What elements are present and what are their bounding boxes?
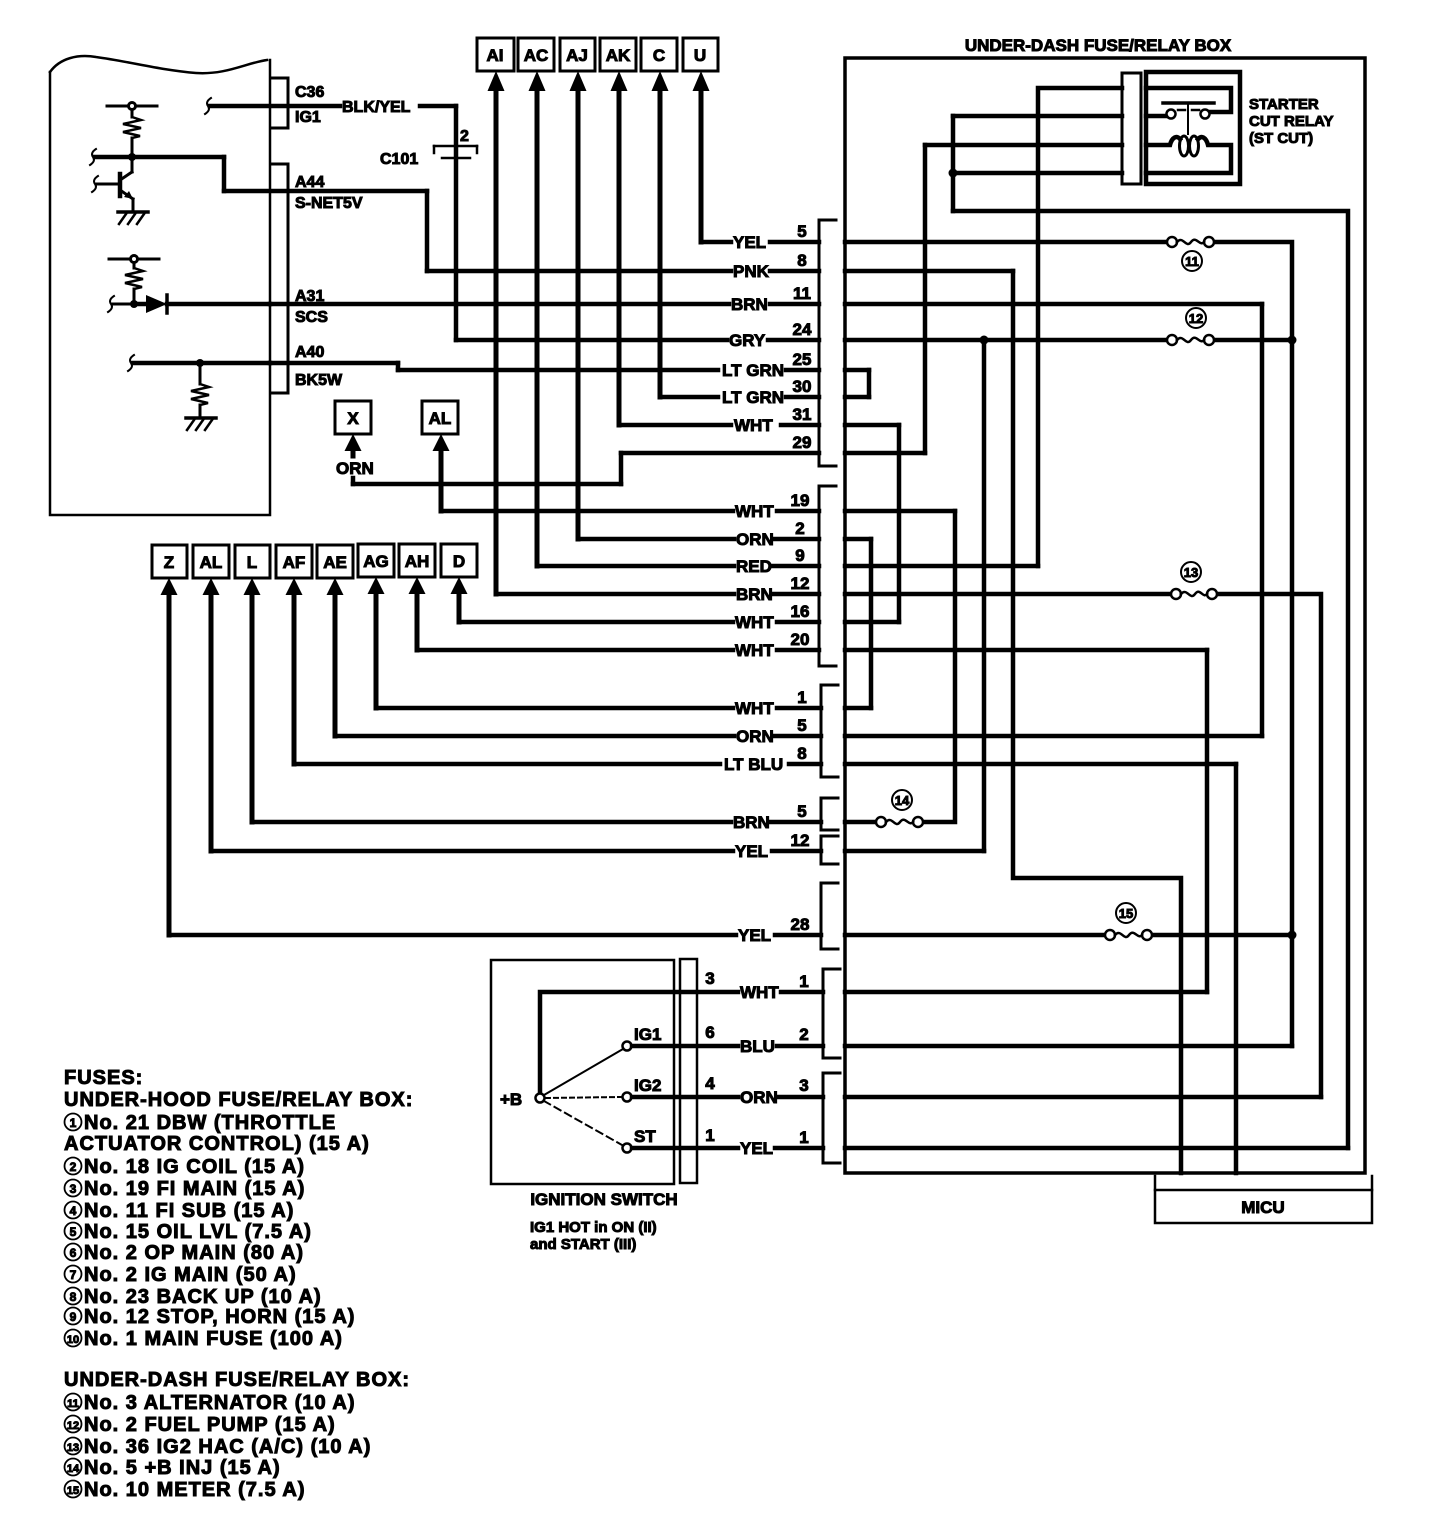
IG1 contact [623, 1042, 632, 1051]
junction fuse15 out [1288, 931, 1297, 940]
wire WHT g6 pin1 [781, 990, 1207, 995]
fuse 14 [876, 817, 923, 827]
group1 bracket [819, 220, 836, 466]
group7 bracket [823, 1073, 840, 1163]
svg-text:7: 7 [70, 1268, 77, 1282]
svg-text:3: 3 [705, 969, 714, 988]
connector AE [317, 545, 353, 736]
svg-text:No. 3 ALTERNATOR (10 A): No. 3 ALTERNATOR (10 A) [84, 1392, 356, 1414]
svg-text:8: 8 [70, 1290, 77, 1304]
relay contact circles [1167, 110, 1176, 119]
svg-text:BRN: BRN [733, 813, 770, 832]
svg-text:16: 16 [791, 602, 810, 621]
svg-text:No. 10 METER (7.5 A): No. 10 METER (7.5 A) [84, 1479, 306, 1501]
vertical wire GRY24 to YEL12 [982, 340, 987, 851]
fuse 12 [1167, 335, 1214, 345]
svg-text:No. 5 +B INJ (15 A): No. 5 +B INJ (15 A) [84, 1457, 281, 1479]
svg-text:2: 2 [70, 1160, 77, 1174]
svg-text:IG1: IG1 [634, 1025, 661, 1044]
svg-text:AL: AL [200, 553, 223, 572]
svg-text:No. 12 STOP, HORN (15 A): No. 12 STOP, HORN (15 A) [84, 1306, 355, 1328]
svg-text:CUT RELAY: CUT RELAY [1249, 113, 1333, 130]
wire WHT pin20 [417, 648, 1207, 653]
svg-text:C: C [653, 46, 665, 65]
group3 bracket [821, 685, 838, 777]
svg-text:WHT: WHT [735, 613, 774, 632]
svg-text:A44: A44 [295, 174, 324, 191]
svg-text:LT GRN: LT GRN [722, 361, 784, 380]
dashed wiper to IG2 [546, 1097, 621, 1098]
wire WHT pin31 [619, 423, 899, 428]
svg-text:WHT: WHT [735, 641, 774, 660]
svg-text:AJ: AJ [566, 46, 588, 65]
continuation tick [205, 98, 211, 114]
wire IG1 out [632, 1044, 738, 1049]
connector AL [193, 545, 229, 851]
IG2 contact [623, 1093, 632, 1102]
wire ORN from X to pin 29 [353, 453, 621, 484]
svg-text:11: 11 [793, 284, 811, 303]
svg-text:14: 14 [67, 1463, 80, 1475]
svg-text:and START (III): and START (III) [530, 1236, 636, 1253]
svg-text:31: 31 [793, 405, 812, 424]
svg-text:UNDER-HOOD FUSE/RELAY BOX:: UNDER-HOOD FUSE/RELAY BOX: [64, 1089, 413, 1111]
terminal T2 [109, 258, 159, 261]
connector AG [358, 544, 394, 708]
svg-text:IGNITION SWITCH: IGNITION SWITCH [530, 1190, 677, 1209]
svg-text:8: 8 [797, 251, 806, 270]
wire ST out [632, 1146, 738, 1151]
svg-text:1: 1 [705, 1126, 714, 1145]
svg-text:25: 25 [793, 350, 812, 369]
wire BRN pin12 [496, 592, 1176, 597]
svg-text:No. 1 MAIN FUSE (100 A): No. 1 MAIN FUSE (100 A) [84, 1328, 343, 1350]
svg-text:20: 20 [791, 630, 810, 649]
wire A44 S-NET5V to PNK [224, 191, 427, 271]
connector U [683, 38, 718, 242]
svg-text:YEL: YEL [733, 233, 766, 252]
svg-text:ORN: ORN [736, 727, 774, 746]
wire relay pin3 [925, 143, 1122, 148]
svg-text:RED: RED [736, 557, 772, 576]
node N2 [130, 300, 138, 308]
wire IG2 out [632, 1095, 738, 1100]
fuse 11 [1167, 237, 1214, 247]
svg-text:UNDER-DASH FUSE/RELAY BOX:: UNDER-DASH FUSE/RELAY BOX: [64, 1369, 410, 1391]
svg-text:YEL: YEL [735, 842, 768, 861]
svg-text:1: 1 [70, 1116, 77, 1130]
tick continuation mark [90, 149, 96, 165]
svg-text:19: 19 [791, 491, 810, 510]
node N3 [196, 359, 204, 367]
svg-text:24: 24 [793, 320, 812, 339]
junction fuse12 out [1288, 336, 1297, 345]
svg-text:9: 9 [795, 546, 804, 565]
resistor R3 [199, 363, 202, 384]
relay internal contact feed [1146, 88, 1231, 112]
svg-text:15: 15 [67, 1485, 79, 1497]
vertical wire fuse11 out to BLU2 [1209, 242, 1292, 1046]
svg-text:12: 12 [791, 574, 810, 593]
svg-text:AH: AH [405, 552, 430, 571]
wire PNK pin8 [427, 269, 1013, 274]
ignition switch +B feed [540, 992, 738, 1093]
vertical wire relay pin2/coil to YEL row [951, 116, 956, 211]
wire ORN g7 pin3 [779, 1095, 1321, 1100]
svg-text:PNK: PNK [733, 262, 770, 281]
svg-text:ACTUATOR CONTROL) (15 A): ACTUATOR CONTROL) (15 A) [64, 1133, 370, 1155]
connector D [441, 544, 477, 622]
wire LT BLU pin8 [294, 762, 1236, 767]
svg-text:BLU: BLU [740, 1037, 775, 1056]
svg-text:AF: AF [283, 553, 306, 572]
under-dash fuse/relay box [845, 58, 1365, 1173]
svg-text:SCS: SCS [295, 309, 328, 326]
resistor R1 [131, 110, 134, 117]
resistor R2 [133, 263, 136, 268]
relay stem [1187, 103, 1189, 134]
group4 bracket b [821, 836, 838, 864]
ST contact [623, 1144, 632, 1153]
wire BLU pin2 [777, 1044, 1292, 1049]
svg-text:28: 28 [791, 915, 810, 934]
wire relay to ST cut row [953, 211, 1348, 1148]
svg-text:5: 5 [797, 802, 806, 821]
svg-text:11: 11 [67, 1398, 79, 1410]
svg-text:11: 11 [1185, 254, 1199, 269]
svg-text:1: 1 [797, 688, 806, 707]
wire ORN pin2 [578, 537, 871, 542]
svg-text:YEL: YEL [740, 1139, 773, 1158]
wire WHT g3 pin1 [376, 706, 871, 711]
diode D1 [134, 302, 146, 307]
svg-text:No. 36 IG2 HAC (A/C) (10 A): No. 36 IG2 HAC (A/C) (10 A) [84, 1436, 371, 1458]
connector C36 bracket [272, 78, 288, 128]
group5 bracket [821, 883, 838, 949]
wire YEL pin5 [701, 240, 1167, 245]
svg-text:5: 5 [797, 222, 806, 241]
connector C101 [434, 146, 477, 158]
svg-text:+B: +B [500, 1090, 522, 1109]
svg-text:No. 21 DBW (THROTTLE: No. 21 DBW (THROTTLE [84, 1112, 336, 1134]
svg-text:3: 3 [70, 1182, 77, 1196]
svg-text:Z: Z [164, 553, 174, 572]
svg-text:LT GRN: LT GRN [722, 388, 784, 407]
svg-text:1: 1 [799, 1128, 808, 1147]
svg-text:AC: AC [524, 46, 549, 65]
svg-text:5: 5 [70, 1225, 77, 1239]
vertical wire relay pin3 to pin29 [923, 145, 928, 453]
svg-text:S-NET5V: S-NET5V [295, 195, 363, 212]
svg-text:AE: AE [323, 553, 347, 572]
svg-text:WHT: WHT [734, 416, 773, 435]
svg-text:6: 6 [70, 1246, 77, 1260]
connector C [641, 38, 677, 397]
svg-text:ORN: ORN [736, 530, 774, 549]
wire pin29 [621, 451, 819, 456]
dashed wiper to ST [544, 1101, 622, 1145]
+B terminal [536, 1094, 545, 1103]
svg-text:GRY: GRY [729, 331, 766, 350]
vertical wire ORN2 to WHT1 [869, 539, 874, 708]
svg-text:LT BLU: LT BLU [724, 755, 783, 774]
svg-text:WHT: WHT [735, 699, 774, 718]
svg-text:3: 3 [799, 1076, 808, 1095]
ignition switch connector [680, 959, 697, 1183]
svg-text:C36: C36 [295, 84, 324, 101]
starter cut relay connector [1122, 73, 1141, 184]
svg-text:8: 8 [797, 744, 806, 763]
wire fuse12 out [1209, 338, 1292, 343]
svg-text:No. 15 OIL LVL (7.5 A): No. 15 OIL LVL (7.5 A) [84, 1221, 312, 1243]
svg-text:YEL: YEL [738, 926, 771, 945]
svg-text:BK5W: BK5W [295, 372, 343, 389]
svg-text:2: 2 [799, 1025, 808, 1044]
ignition switch box [491, 960, 674, 1184]
relay internal pin2 feed [1146, 114, 1166, 119]
svg-text:WHT: WHT [740, 983, 779, 1002]
svg-text:BLK/YEL: BLK/YEL [342, 99, 411, 116]
connector L [235, 545, 270, 822]
wire LT GRN pin30 [661, 370, 869, 397]
group6 bracket [823, 969, 840, 1058]
svg-text:1: 1 [799, 972, 808, 991]
starter cut relay body [1146, 72, 1240, 184]
wire ORN g3 pin5 [335, 734, 1262, 739]
svg-text:2: 2 [795, 519, 804, 538]
svg-text:13: 13 [1184, 565, 1198, 580]
svg-text:(ST CUT): (ST CUT) [1249, 130, 1313, 147]
svg-text:D: D [453, 552, 465, 571]
svg-text:No. 2 FUEL PUMP (15 A): No. 2 FUEL PUMP (15 A) [84, 1414, 336, 1436]
svg-text:WHT: WHT [735, 502, 774, 521]
svg-text:6: 6 [705, 1023, 714, 1042]
left tick lead [113, 303, 134, 306]
group2 bracket [819, 486, 836, 666]
ECM/PCM box (torn-edge module outline) [50, 56, 270, 515]
svg-text:14: 14 [895, 793, 910, 808]
svg-text:13: 13 [67, 1442, 79, 1454]
wire BRN g4 pin5 [252, 820, 881, 825]
wire A40 to LT GRN jog [270, 363, 398, 370]
fuse 13 [1171, 589, 1217, 599]
svg-text:AL: AL [429, 409, 452, 428]
svg-text:UNDER-DASH FUSE/RELAY BOX: UNDER-DASH FUSE/RELAY BOX [965, 36, 1232, 55]
wire A40 row [133, 361, 270, 366]
svg-text:IG1: IG1 [295, 109, 321, 126]
svg-text:No. 11 FI SUB (15 A): No. 11 FI SUB (15 A) [84, 1200, 294, 1222]
svg-text:BRN: BRN [736, 585, 773, 604]
svg-text:No. 23 BACK UP (10 A): No. 23 BACK UP (10 A) [84, 1286, 322, 1308]
terminal T1 [107, 105, 157, 108]
vertical wire WHT19 to fuse14 [918, 511, 955, 822]
connector A bracket [272, 164, 288, 393]
connector AH [399, 544, 435, 650]
connector AL (mid) [422, 401, 458, 511]
transistor Q1 [118, 174, 123, 196]
vertical wire BRN11 to ORN5 [1260, 304, 1265, 736]
svg-text:IG1 HOT in ON (II): IG1 HOT in ON (II) [530, 1219, 657, 1236]
wire BLK/YEL from IG1 [210, 106, 456, 340]
svg-text:5: 5 [797, 716, 806, 735]
connector Z [152, 545, 187, 935]
vertical wire PNK8 to MICU [1013, 271, 1181, 1173]
svg-text:IG2: IG2 [634, 1076, 661, 1095]
svg-text:AK: AK [606, 46, 631, 65]
junction GRY24 [980, 336, 989, 345]
wire YEL g7 pin1 [775, 1146, 1348, 1151]
svg-text:No. 2 OP MAIN (80 A): No. 2 OP MAIN (80 A) [84, 1242, 304, 1264]
fuse 15 [1105, 930, 1152, 940]
wire base row to A44 step [95, 155, 224, 160]
wire YEL pin28 [169, 933, 1110, 938]
connector AC [518, 38, 554, 566]
svg-text:U: U [694, 46, 706, 65]
wiper to IG1 [544, 1049, 623, 1095]
node N1 [128, 153, 136, 161]
ground G2 [186, 416, 216, 420]
svg-text:4: 4 [705, 1074, 715, 1093]
wire relay pin2 [953, 114, 1122, 119]
svg-text:BRN: BRN [731, 295, 768, 314]
svg-text:ORN: ORN [336, 459, 374, 478]
MICU box [1155, 1176, 1372, 1223]
svg-text:AG: AG [363, 552, 389, 571]
svg-text:STARTER: STARTER [1249, 96, 1319, 113]
group4 bracket a [821, 798, 838, 830]
svg-text:FUSES:: FUSES: [64, 1067, 143, 1089]
svg-text:ORN: ORN [740, 1088, 778, 1107]
wire BRN pin11 [270, 302, 1262, 307]
svg-text:No. 18 IG COIL (15 A): No. 18 IG COIL (15 A) [84, 1156, 305, 1178]
svg-text:29: 29 [793, 433, 812, 452]
connector AJ [560, 38, 595, 539]
relay fixed bar [1163, 101, 1214, 105]
svg-text:A40: A40 [295, 344, 324, 361]
wire fuse13 out to ORN3 [1212, 594, 1321, 1097]
svg-text:15: 15 [1119, 906, 1133, 921]
wire RED pin9 [537, 564, 1038, 569]
svg-text:12: 12 [1189, 311, 1203, 326]
svg-text:4: 4 [70, 1204, 77, 1218]
BKSW circuit [128, 355, 270, 430]
svg-text:12: 12 [791, 831, 810, 850]
connector AI [477, 38, 514, 594]
svg-text:X: X [347, 409, 359, 428]
transistor circuit Q1 (IG1 buffer) [90, 103, 224, 225]
connector X [335, 401, 371, 456]
svg-text:No. 2 IG MAIN (50 A): No. 2 IG MAIN (50 A) [84, 1264, 297, 1286]
connector AK [600, 38, 636, 425]
wire fuse15 out [1147, 933, 1292, 938]
wire YEL g4 pin12 [211, 849, 984, 854]
svg-text:10: 10 [67, 1334, 79, 1346]
relay contact dashes [1178, 109, 1185, 112]
svg-text:30: 30 [793, 377, 812, 396]
svg-text:MICU: MICU [1241, 1198, 1284, 1217]
svg-text:L: L [247, 553, 257, 572]
junction relay coil [949, 169, 958, 178]
svg-text:12: 12 [67, 1420, 79, 1432]
wire GRY pin24 [456, 338, 1167, 343]
relay coil [1146, 137, 1180, 145]
base lead tick [97, 183, 119, 186]
vertical wire RED9 to relay pin1 [1038, 88, 1122, 566]
wire WHT pin19 [441, 509, 955, 514]
legend fuses text [64, 1067, 413, 1501]
svg-text:ST: ST [634, 1127, 656, 1146]
svg-text:2: 2 [460, 128, 469, 145]
ground G1 [118, 210, 148, 214]
wire LT GRN pin25 [398, 368, 869, 373]
svg-text:AI: AI [487, 46, 504, 65]
vertical wire WHT20 to WHT1 [1205, 650, 1210, 992]
vertical wire LT BLU8 to MICU [1234, 764, 1239, 1173]
wire relay pin4 [953, 171, 1122, 176]
svg-text:9: 9 [70, 1310, 77, 1324]
SCS circuit [108, 256, 270, 314]
svg-text:No. 19 FI MAIN (15 A): No. 19 FI MAIN (15 A) [84, 1178, 305, 1200]
connector AF [276, 545, 312, 764]
wire WHT pin16 [459, 620, 899, 625]
svg-text:C101: C101 [380, 151, 418, 168]
vertical wire WHT31 to WHT16 [897, 425, 902, 622]
